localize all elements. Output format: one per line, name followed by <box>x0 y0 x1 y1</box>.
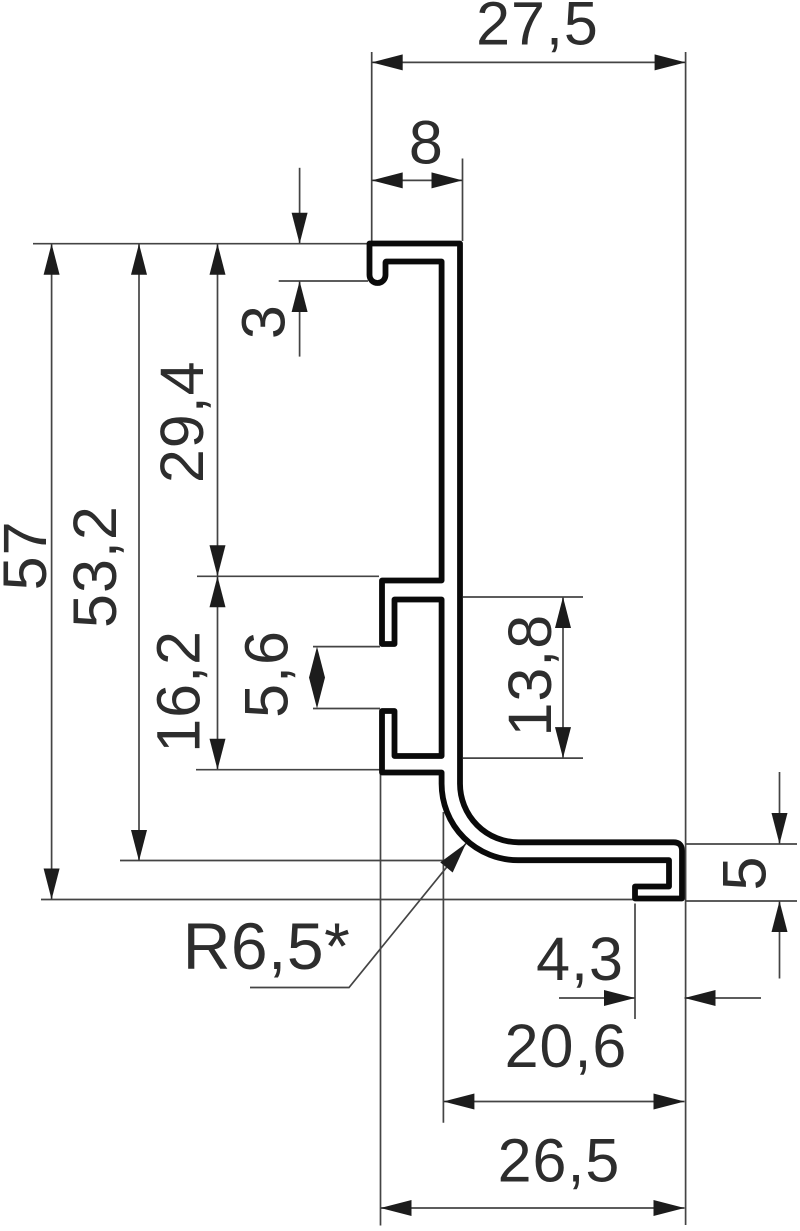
profile outline (aluminium L-profile cross-section) <box>370 244 683 899</box>
R6,5* leader arrowhead <box>440 838 472 872</box>
dim line 26,5 <box>381 1207 685 1209</box>
svg-text:27,5: 27,5 <box>476 0 599 58</box>
ext line 5,6 bottom <box>313 708 380 710</box>
ext line 5 bottom <box>685 900 797 902</box>
dim line 53,2 <box>138 244 140 861</box>
ext line top (57/53,2/29,4/3 upper reference) <box>33 243 370 245</box>
16,2 arrows <box>210 576 226 607</box>
dim line 29,4 / 16,2 shared vertical <box>217 244 219 770</box>
53,2 arrows <box>131 244 147 275</box>
4,3 arrows (outside) <box>604 990 635 1006</box>
svg-text:5: 5 <box>711 856 779 891</box>
8 arrows <box>372 172 403 188</box>
ext line 57 bottom <box>41 899 633 901</box>
svg-text:53,2: 53,2 <box>61 505 129 628</box>
svg-text:3: 3 <box>230 304 298 339</box>
dim line 13,8 <box>562 597 564 758</box>
dim line 27,5 <box>372 61 686 63</box>
svg-text:5,6: 5,6 <box>233 630 301 718</box>
5,6 arrows (inside, tip to ext lines) <box>309 647 325 678</box>
ext line 4,3 left (hook tip) <box>634 904 636 1020</box>
svg-text:57: 57 <box>0 520 59 590</box>
ext line 29,4/16,2 at prong top <box>197 575 379 577</box>
svg-text:4,3: 4,3 <box>536 925 624 993</box>
ext line 53,2 bottom <box>120 860 445 862</box>
5 arrows (outside) <box>772 813 788 844</box>
ext line 27,5 left <box>371 52 373 241</box>
13,8 arrows <box>555 597 571 628</box>
svg-text:8: 8 <box>409 108 444 176</box>
ext line 13,8 bottom <box>463 757 583 759</box>
svg-text:20,6: 20,6 <box>505 1012 628 1080</box>
dim line 4,3 right segment <box>685 997 762 999</box>
26,5 arrows <box>381 1200 412 1216</box>
ext line 13,8 top <box>463 596 583 598</box>
dim line 4,3 left segment <box>559 997 635 999</box>
svg-text:26,5: 26,5 <box>498 1127 621 1195</box>
dim line 3 lower segment <box>299 281 301 357</box>
dim line 57 <box>51 244 53 900</box>
dim line 8 <box>372 179 463 181</box>
ext line 5 top <box>685 843 797 845</box>
leader line R6,5* underline <box>250 843 466 987</box>
dim line 3 upper segment <box>299 168 301 244</box>
3 arrows (outside) <box>292 213 308 244</box>
ext line 20,6 left <box>442 812 444 1123</box>
ext line 3 bottom (lip) <box>279 280 368 282</box>
svg-text:29,4: 29,4 <box>148 360 216 483</box>
ext line 5,6 top <box>313 646 380 648</box>
20,6 arrows <box>443 1094 474 1110</box>
ext line 8 right <box>462 159 464 242</box>
27,5 arrows <box>372 54 403 70</box>
svg-text:16,2: 16,2 <box>145 630 213 753</box>
ext line right common (27,5 / 4,3 / 20,6 / 26,5) <box>685 52 687 1225</box>
ext line 16,2 bottom <box>196 769 380 771</box>
dim line 5 lower segment <box>779 901 781 979</box>
svg-text:R6,5*: R6,5* <box>183 909 351 983</box>
57 arrows <box>44 244 60 275</box>
dim line 5 upper segment <box>779 772 781 844</box>
29,4 arrows <box>210 244 226 275</box>
dim line 20,6 <box>443 1101 684 1103</box>
ext line 26,5 left <box>380 774 382 1226</box>
svg-text:13,8: 13,8 <box>496 614 564 737</box>
